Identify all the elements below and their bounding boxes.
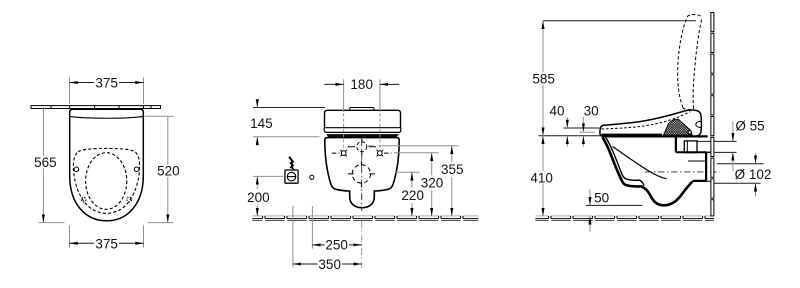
svg-text:565: 565 bbox=[34, 155, 57, 170]
dim 200 extension bbox=[253, 175, 284, 177]
floor line (side view) bbox=[535, 216, 714, 221]
bolt hole right bbox=[377, 150, 384, 157]
nozzle cross dashes bbox=[348, 139, 376, 156]
dim 220 extension bbox=[396, 171, 420, 173]
drain outline bbox=[688, 160, 706, 162]
dim 565/520 bottom extension line bbox=[39, 222, 174, 224]
dim 410 bbox=[542, 136, 544, 217]
svg-text:410: 410 bbox=[530, 170, 553, 185]
seat hinge hole left bbox=[74, 167, 79, 172]
dim 180 bbox=[324, 83, 399, 85]
transition line under pipe bbox=[676, 151, 707, 153]
drain centerline bbox=[645, 171, 720, 173]
dim 145 extension top bbox=[253, 107, 325, 109]
centerline (front) bbox=[361, 139, 363, 211]
dim 585 top extension bbox=[543, 20, 696, 22]
hinge pin circle bbox=[688, 131, 691, 134]
svg-text:145: 145 bbox=[250, 116, 273, 131]
fixing hole right (dashed) bbox=[127, 197, 132, 202]
dim 520 bbox=[167, 116, 169, 222]
lid top extension (dim 40) bbox=[564, 127, 600, 129]
dim 145 extension bottom bbox=[253, 136, 320, 138]
svg-text:375: 375 bbox=[95, 236, 118, 251]
dim 375 bottom extension lines bbox=[70, 226, 144, 248]
svg-text:375: 375 bbox=[95, 76, 118, 91]
dim 250/350 extension verticals bbox=[293, 206, 313, 268]
dim 220 bbox=[411, 172, 413, 216]
bowl inner front line bbox=[606, 138, 644, 186]
svg-text:320: 320 bbox=[421, 176, 444, 191]
ceramic back face bbox=[675, 136, 677, 152]
floor line (front view) bbox=[252, 216, 478, 221]
seat bumper rear bbox=[648, 135, 654, 137]
dim 200 bbox=[256, 176, 258, 216]
spray nozzle circle (dashed) bbox=[357, 142, 367, 152]
seat and lid profile bbox=[600, 110, 701, 136]
dim 180 extension lines bbox=[344, 79, 380, 150]
svg-text:250: 250 bbox=[325, 238, 348, 253]
svg-text:40: 40 bbox=[549, 103, 564, 118]
dim 320 bbox=[431, 153, 433, 217]
seat outer edge (dashed) bbox=[73, 148, 139, 213]
bolt hole left bbox=[340, 150, 347, 157]
seat edge dark band bbox=[327, 135, 398, 137]
flush pipe stub bbox=[684, 141, 697, 153]
bowl outline (front) bbox=[325, 138, 399, 208]
seat bumper front bbox=[616, 135, 622, 137]
svg-text:50: 50 bbox=[594, 190, 609, 205]
dim 375 top bbox=[70, 82, 144, 84]
flush pipe lines to wall bbox=[697, 141, 737, 152]
raised lid (dashed, open position) bbox=[678, 15, 702, 110]
seat hinge hole right bbox=[134, 167, 139, 172]
bowl opening (dashed oval) bbox=[86, 153, 127, 210]
dim 145 bbox=[256, 99, 258, 146]
ceramic rim top line bbox=[601, 135, 707, 137]
dim 585 bbox=[542, 21, 544, 136]
water connection circle bbox=[310, 175, 314, 179]
lightning arrow bbox=[289, 157, 293, 167]
dim 30 bbox=[582, 117, 584, 147]
wall (stacked sections) bbox=[711, 13, 714, 216]
dim 375 top extension lines bbox=[70, 77, 144, 104]
wall mounting plate bbox=[31, 106, 161, 109]
lid back edge curve bbox=[70, 117, 142, 119]
shower unit (cross hatched) bbox=[664, 119, 693, 135]
svg-text:Ø 55: Ø 55 bbox=[735, 118, 764, 133]
svg-text:180: 180 bbox=[350, 77, 373, 92]
dim diameter 55 bbox=[732, 121, 734, 171]
fixing hole left (dashed) bbox=[81, 197, 86, 202]
drain extension lines bbox=[715, 164, 764, 184]
top button bbox=[350, 108, 374, 111]
bowl interior curve bbox=[613, 147, 667, 179]
dim 520 top extension bbox=[145, 115, 174, 117]
dim 375 bottom bbox=[70, 242, 144, 244]
svg-text:355: 355 bbox=[441, 162, 464, 177]
dim 355 bbox=[451, 146, 453, 217]
svg-text:Ø 102: Ø 102 bbox=[735, 167, 772, 182]
toilet body outline (plan) bbox=[70, 109, 144, 221]
dim diameter 102 bbox=[755, 153, 757, 197]
seat top extension to dim line bbox=[539, 135, 602, 137]
svg-text:30: 30 bbox=[584, 103, 599, 118]
svg-text:585: 585 bbox=[532, 71, 555, 86]
svg-text:520: 520 bbox=[157, 164, 180, 179]
seat ring extension (dim 30) bbox=[579, 131, 595, 133]
svg-text:350: 350 bbox=[318, 257, 341, 272]
cistern cover (tank) bbox=[325, 110, 401, 127]
bolt level dashes bbox=[332, 152, 392, 154]
bowl outer profile bbox=[603, 138, 693, 206]
svg-text:200: 200 bbox=[247, 190, 270, 205]
drain cross dashes bbox=[348, 161, 375, 188]
dim 50 extension bbox=[586, 204, 643, 206]
dim 250 bbox=[312, 244, 361, 246]
dim 320 extension bbox=[394, 152, 439, 154]
drain underside thick line bbox=[693, 152, 707, 181]
dim 355 extension bbox=[368, 145, 459, 147]
tank lower lip bbox=[324, 128, 401, 133]
dim 350 bbox=[293, 263, 362, 265]
drain circle (dashed) bbox=[352, 165, 370, 183]
dim 40 bbox=[566, 117, 568, 146]
seat-lid joint (dashed) bbox=[602, 112, 691, 129]
wall notch (D shape) bbox=[696, 121, 701, 127]
power socket symbol bbox=[285, 170, 298, 183]
seat underside thick line bbox=[602, 134, 663, 136]
dim 565 bbox=[42, 107, 44, 222]
dim 50 bbox=[589, 189, 591, 231]
